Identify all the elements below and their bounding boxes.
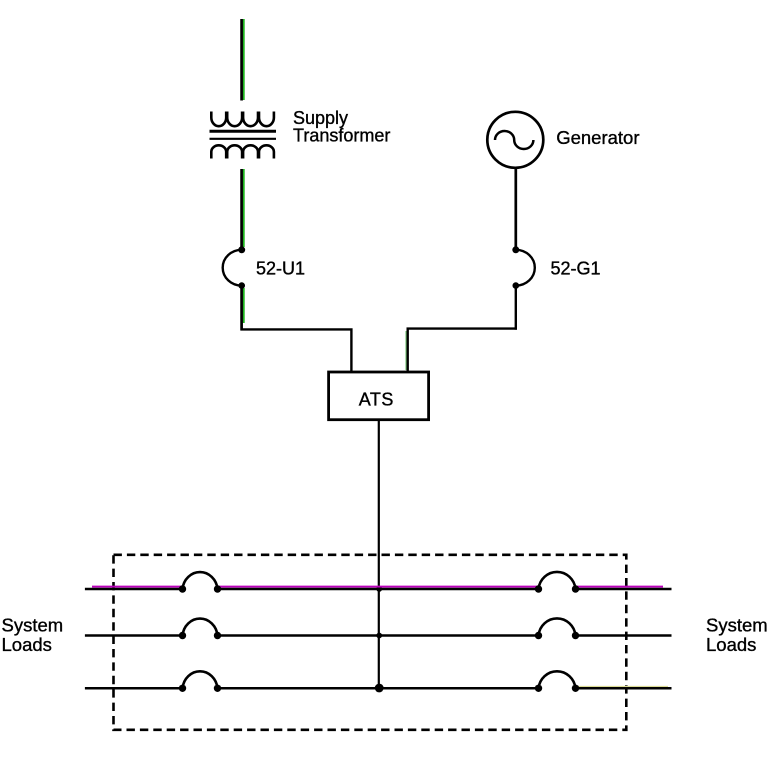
bus line 1 <box>85 588 672 591</box>
label Supply Transformer <box>293 108 390 145</box>
wire horizontal to ATS right <box>408 329 517 373</box>
bus1 left breaker arc <box>183 572 218 589</box>
svg-text:52-G1: 52-G1 <box>551 259 601 279</box>
bus2 left breaker dots <box>179 632 186 639</box>
node junction ATS feed at bus 1 <box>376 586 382 592</box>
wire breaker to corner <box>240 286 243 331</box>
node junction ATS feed to bus 3 <box>375 684 384 693</box>
bus line 3 scan tint <box>576 686 668 688</box>
node junction ATS feed at bus 2 <box>376 633 382 639</box>
wire utility feed top <box>240 19 243 101</box>
wire ATS to load bus <box>378 420 380 689</box>
svg-text:System: System <box>2 614 64 635</box>
bus line 2 <box>85 634 672 637</box>
bus3 left breaker dots <box>179 685 186 692</box>
bus1 left breaker dots <box>179 585 186 592</box>
generator G1 sine wave <box>495 131 533 149</box>
transformer T1 secondary winding <box>211 145 274 158</box>
ATS box <box>329 372 429 420</box>
svg-text:Loads: Loads <box>2 634 52 655</box>
label System Loads right <box>706 614 768 655</box>
bus1 right breaker arc <box>539 572 576 589</box>
wire green fringe at ATS right feed <box>405 331 407 370</box>
bus3 left breaker arc <box>183 671 218 688</box>
transformer T1 core bars <box>210 130 277 133</box>
breaker 52-U1 top contact dot <box>238 246 245 253</box>
dashed enclosure box <box>114 555 627 730</box>
bus1 right breaker dots <box>535 585 542 592</box>
label System Loads left <box>2 614 64 655</box>
breaker 52-U1 arc <box>223 250 242 286</box>
svg-text:Transformer: Transformer <box>293 126 390 146</box>
wire transformer to breaker <box>240 169 243 250</box>
bus3 right breaker arc <box>539 671 576 688</box>
wire horizontal to ATS left <box>241 329 352 372</box>
svg-text:52-U1: 52-U1 <box>256 259 305 279</box>
transformer T1 primary winding <box>211 112 274 127</box>
bus2 right breaker arc <box>539 618 576 635</box>
bus2 right breaker dots <box>535 632 542 639</box>
svg-text:ATS: ATS <box>359 389 394 409</box>
svg-text:System: System <box>706 614 768 635</box>
breaker 52-G1 top contact dot <box>512 246 519 253</box>
wire utility feed (green trace) <box>243 19 245 323</box>
breaker 52-G1 bottom contact dot <box>513 282 520 289</box>
bus line 3 <box>85 687 672 690</box>
bus line 1 magenta trace <box>92 586 663 588</box>
bus2 left breaker arc <box>183 619 218 636</box>
generator G1 circle <box>487 112 543 168</box>
wire generator to breaker <box>514 167 517 250</box>
svg-text:Loads: Loads <box>706 634 756 655</box>
bus3 right breaker dots <box>535 685 542 692</box>
svg-text:Generator: Generator <box>556 127 639 148</box>
wire breaker to corner <box>515 286 517 330</box>
breaker 52-G1 arc <box>516 250 535 286</box>
breaker 52-U1 bottom contact dot <box>238 282 245 289</box>
